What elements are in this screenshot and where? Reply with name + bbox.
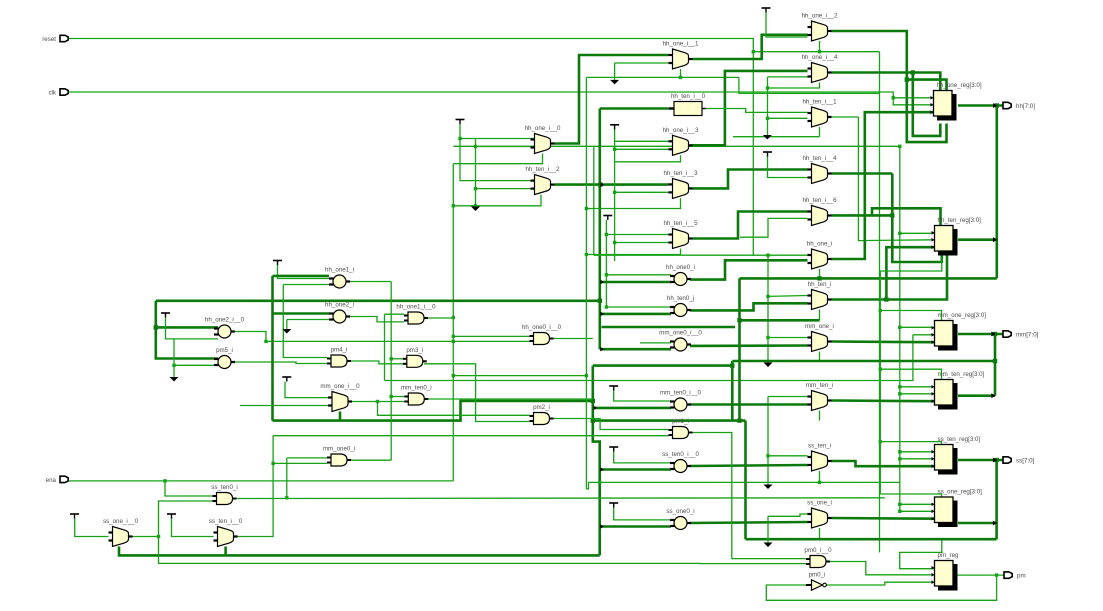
port pm [1004, 572, 1026, 580]
wire ss_ten0 out [690, 465, 808, 466]
wire mm_one_i upper [768, 337, 808, 339]
junction r767 a [766, 86, 769, 89]
wire hh_one_i__2 sel [819, 41, 821, 52]
junction r899 ss_ten p2 [898, 457, 901, 460]
constant T mm_one_i__0 [282, 377, 291, 382]
wire hh_ten_reg fb [880, 258, 942, 271]
wire ss_one_i sel [819, 528, 821, 539]
svg-text:pm2_i: pm2_i [533, 404, 550, 411]
svg-text:ss_one_reg[3:0]: ss_one_reg[3:0] [938, 489, 983, 496]
wire hh_ten6 out [832, 214, 893, 217]
wire mm_ten_reg Q [958, 394, 995, 397]
wire ss_ten0_i out [237, 497, 885, 500]
wire r899 mm_one p1 [900, 326, 935, 328]
junction pmq [995, 573, 998, 576]
wire t 277 drop [278, 265, 330, 279]
wire mm_one_i__0 out [352, 401, 404, 403]
and-gate pm4_i [327, 347, 351, 368]
svg-text:mm_ten_reg[3:0]: mm_ten_reg[3:0] [938, 371, 985, 378]
wire hh_one1 bus [693, 35, 808, 59]
wire hh_ten3 sel [586, 198, 680, 209]
wire r899 mm_ten p2 [900, 393, 935, 395]
wire mm_ten0_i in1 [391, 396, 404, 398]
svg-text:ena: ena [46, 477, 57, 484]
wire mm fb bus [732, 360, 995, 363]
wire mm_ten0 low [593, 407, 671, 410]
wire y327 stub [602, 326, 736, 329]
wire vbus 599 [598, 109, 601, 350]
wire hh_one1 in2 [283, 284, 329, 286]
wire rail 880 [879, 271, 881, 494]
pin tick [600, 182, 604, 186]
wire hh_one0_i__0 in1 [453, 335, 529, 337]
wire hh_ten0 low [600, 313, 671, 316]
wire ss fb left v [744, 421, 747, 540]
open terminal c [763, 135, 772, 140]
junction r476 b [474, 187, 477, 190]
wire t285 drop [285, 382, 328, 398]
constant T hh_one2_i__0 [161, 313, 170, 318]
junction hhq [995, 103, 999, 107]
buffer pm5_i [214, 347, 235, 369]
wire ssten top feed [880, 442, 941, 445]
svg-text:pm0_i: pm0_i [809, 572, 826, 579]
wire rail 768 B [767, 397, 769, 485]
and-gate mm_one0_i [323, 446, 355, 467]
wire left bus v [156, 301, 218, 359]
constant T ss_ten_i__0 [167, 514, 176, 519]
junction rail391 pm3 [390, 357, 393, 360]
svg-text:ss_ten_reg[3:0]: ss_ten_reg[3:0] [938, 436, 981, 443]
wire hh_ten6 jog [872, 208, 941, 225]
wire pm1 in2 [273, 435, 668, 437]
wire mm_ten_i sel [819, 411, 821, 421]
wire hh_one_reg Q [958, 104, 1003, 107]
wire hh_ten_i__2 sel [453, 195, 541, 206]
junction r586 a [585, 207, 588, 210]
buffer ss_one0_i [666, 508, 694, 530]
junction t460 [458, 137, 461, 140]
wire mmten top feed [880, 369, 941, 379]
wire mm_one_i__0 in2 [240, 405, 328, 407]
wire sel1 drop [739, 77, 880, 93]
svg-text:pm_reg: pm_reg [938, 552, 960, 559]
wire clk to hh_one_reg [893, 97, 934, 99]
mux ss_ten_i__0 [209, 518, 243, 547]
svg-text:mm_one_i__0: mm_one_i__0 [320, 383, 360, 390]
wire hh_ten3 in2 [615, 191, 669, 193]
register mm_one_reg[3:0] [932, 312, 987, 351]
buffer hh_one1_i [325, 267, 354, 289]
open terminal f [764, 363, 773, 368]
open terminal g [764, 485, 773, 490]
wire mm fb left [273, 401, 593, 421]
svg-text:ss_ten_i: ss_ten_i [808, 443, 831, 450]
wire hh_ten1 in2 [768, 117, 808, 119]
svg-text:ss_one0_i: ss_one0_i [666, 508, 694, 515]
wire pm0_i out [826, 582, 935, 585]
wire pm2 out [554, 419, 669, 430]
wire mm top feed [880, 311, 941, 321]
wire hh_one3 in2 [615, 148, 669, 150]
svg-text:pm3_i: pm3_i [406, 347, 423, 354]
wire pm3 out [424, 364, 530, 422]
wire ss_one_i upper [768, 514, 808, 516]
register hh_one_reg[3:0] [931, 82, 982, 121]
wire hh_ten5 in2 [615, 242, 669, 244]
svg-text:pm0_i__0: pm0_i__0 [804, 547, 832, 554]
svg-text:ss_one_i: ss_one_i [807, 500, 832, 507]
wire hh_ten3 out [693, 170, 808, 189]
wire hh_one1_i__0 out [424, 317, 453, 319]
junction sel1 [679, 76, 682, 79]
junction leftbus 599 [598, 299, 602, 303]
wire rail 768 C [767, 516, 769, 542]
svg-text:hh_ten_i__2: hh_ten_i__2 [525, 166, 560, 173]
wire ss_ten_reg Q [958, 459, 1003, 462]
wire hh_one1 out [346, 281, 391, 283]
wire mm_ten_i upper [768, 396, 808, 398]
junction leftbus [154, 325, 158, 329]
junction r899 ss_one p2 [898, 510, 901, 513]
wire hh reg top2 [907, 80, 947, 91]
junction sel hhten2 b [474, 204, 477, 207]
wire hhten0 out [706, 109, 808, 113]
wire pm5 in2 [174, 364, 218, 366]
wire t165 drop [166, 318, 219, 339]
wire hh_one0 out [690, 260, 808, 279]
wire ss_one_reg Q [958, 522, 997, 525]
wire hh_ten4 loop [892, 174, 942, 263]
buffer mm_one0_i__0 [659, 330, 702, 352]
wire ss_ten_i upper [768, 455, 808, 457]
wire mm_ten0 out [690, 403, 808, 406]
junction hh_one_i__2 sel [818, 50, 821, 53]
wire hh_one1_i__0 in1 [385, 313, 405, 315]
constant T hh_one_i__0 [456, 120, 465, 125]
junction hoursel 336 [452, 335, 455, 338]
q arrowhead [993, 521, 997, 526]
wire rail 283 [283, 285, 327, 358]
wire vbus 592 [593, 366, 600, 556]
junction pm5 [172, 364, 175, 367]
register pm_reg [932, 552, 960, 591]
constant T mm_ten0_i__0 [609, 386, 618, 391]
wire hh_ten2 bus [555, 183, 669, 186]
wire ss1 to ss_ten0 [159, 501, 213, 537]
open terminal e [170, 377, 179, 382]
wire hh_one2 bus [832, 31, 947, 142]
wire v912 seg [385, 335, 913, 381]
wire hh_ten_i upper [768, 295, 808, 298]
svg-text:mm_ten0_i: mm_ten0_i [401, 385, 432, 392]
wire mm fb rise [731, 361, 734, 421]
junction r768 hh_ten [766, 295, 769, 298]
and-gate ss_ten0_i [211, 484, 238, 505]
svg-text:hh_one0_i__0: hh_one0_i__0 [522, 324, 562, 331]
junction sel hhten2 [452, 204, 455, 207]
junction r899 mm_one p1 [898, 326, 901, 329]
wire hh_one_i out [832, 112, 935, 259]
constant T hh_ten_i__5 [603, 216, 612, 221]
buffer ss_ten0_i__0 [662, 451, 699, 473]
svg-text:hh_one_i__4: hh_one_i__4 [802, 54, 838, 61]
wire pm2 feed [378, 402, 530, 416]
port mm[7:0] [1003, 331, 1039, 339]
svg-text:hh_one0_i: hh_one0_i [666, 264, 695, 271]
junction r768 hh_one [766, 254, 769, 257]
wire ss v bus [995, 460, 998, 539]
wire y365 bus [593, 364, 733, 367]
svg-text:hh_ten_reg[3:0]: hh_ten_reg[3:0] [938, 217, 982, 224]
junction r880 b [879, 368, 882, 371]
svg-text:mm_one0_i: mm_one0_i [323, 446, 355, 453]
wire hh_one2 in1 [273, 312, 330, 315]
mux hh_one_i__0 [525, 125, 561, 154]
wire leftbus v272 [271, 276, 274, 421]
svg-text:mm_one0_i__0: mm_one0_i__0 [659, 330, 702, 337]
wire ss sel row [586, 482, 899, 489]
junction ssrow 599 [598, 481, 601, 484]
wire hh_ten_i out [832, 254, 948, 300]
wire hh_one_i__0 in2 [476, 146, 535, 148]
wire hh_ten4 out [832, 172, 893, 175]
and-gate pm1_i [669, 418, 693, 439]
svg-text:hh[7:0]: hh[7:0] [1016, 103, 1035, 110]
mux ss_ten_i [808, 443, 832, 472]
junction mm_one0 in2 [271, 462, 274, 465]
svg-text:ss_ten0_i__0: ss_ten0_i__0 [662, 451, 699, 458]
wire r899 ss_one p1 [900, 503, 935, 505]
wire rail 899 [899, 146, 901, 511]
junction r607 a [605, 233, 608, 236]
buffer mm_ten0_i__0 [660, 390, 701, 412]
wire hh_ten1 sel [819, 127, 821, 137]
wire hoursel rail [452, 164, 454, 481]
svg-text:mm_ten0_i__0: mm_ten0_i__0 [660, 390, 701, 397]
wire hh_ten_reg Q [958, 238, 997, 241]
junction mmfb 365 [730, 363, 734, 367]
junction clk hh_one [892, 96, 895, 99]
junction r614 a [613, 191, 616, 194]
junction reset [752, 50, 755, 53]
wire reset net [67, 39, 753, 52]
svg-text:reset: reset [42, 36, 56, 43]
open terminal d [282, 329, 291, 334]
junction r899 ss_one p1 [898, 503, 901, 506]
buffer hh_one2_i__0 [205, 317, 245, 339]
wire ena net [67, 480, 453, 482]
port ena [46, 476, 69, 484]
junction hh4 branch [911, 70, 915, 74]
svg-text:hh_ten_i__4: hh_ten_i__4 [802, 155, 837, 162]
wire hh_ten0 out [690, 303, 808, 310]
junction hhten3 in1 [598, 182, 602, 186]
wire t460 to hh_ten2 [460, 139, 535, 181]
wire ss bottom bus [119, 547, 600, 556]
q arrowhead [993, 237, 997, 242]
wire in2 arrow drop [614, 63, 616, 80]
wire hh_ten5 sel [586, 249, 680, 255]
wire r899 hh_ten p1 [900, 232, 935, 234]
wire hh_ten6 in2 [740, 218, 808, 237]
svg-text:hh_ten_i__6: hh_ten_i__6 [802, 197, 837, 204]
open terminal a [610, 80, 619, 85]
wire hh_one2 out [346, 317, 404, 322]
buffer hh_ten0_j [667, 295, 694, 317]
pin tick [600, 347, 604, 351]
wire mm_one p2 [913, 334, 935, 336]
wire hh_one_i__1 seldrop [680, 69, 682, 77]
junction r614 b [613, 241, 616, 244]
wire hh_one4 sel [768, 83, 820, 89]
wire hh_one3 in1 [615, 140, 669, 142]
wire tc766 [766, 13, 808, 38]
junction v740 end [737, 418, 741, 422]
wire tc767 drop [768, 157, 808, 178]
wire mm v bus [994, 334, 997, 396]
junction r614 in2 [613, 148, 616, 151]
pin tick [600, 312, 604, 316]
junction r607 c [605, 305, 608, 308]
wire pm feedback [766, 575, 996, 600]
svg-text:clk: clk [48, 90, 56, 97]
constant T hh_one_i__2 [762, 8, 771, 13]
wire hh_ten_i__2 in2 [476, 188, 535, 190]
wire mm fb bus2 [593, 419, 746, 422]
open terminal b [471, 207, 480, 212]
wire clk net [67, 92, 935, 105]
mux hh_one_i__4 [802, 54, 838, 83]
junction mm_one_i__0 out [376, 400, 379, 403]
svg-text:ss_one_i__0: ss_one_i__0 [103, 518, 139, 525]
wire rail 879 [879, 52, 881, 553]
mux ss_one_i [807, 500, 832, 529]
junction ss_ten0 out [285, 496, 288, 499]
junction r899 hh_ten p1 [898, 232, 901, 235]
and-gate pm2_i [530, 404, 554, 425]
mux hh_one_i__2 [802, 13, 838, 42]
junction hhten D [884, 297, 888, 301]
wire hh_one4 loop [913, 73, 941, 136]
svg-text:hh_one_i__3: hh_one_i__3 [663, 127, 699, 134]
wire mm_one_i sel [819, 352, 821, 362]
wire ss_ten_i__0 out [238, 436, 274, 537]
pin tick [600, 280, 604, 284]
junction ssq [994, 458, 998, 462]
wire t74 drop [75, 519, 109, 537]
wire hh_one1 in1 [273, 275, 330, 278]
and-gate hh_one0_i__0 [522, 324, 562, 345]
wire ss_one0 out [690, 522, 808, 523]
junction r607 b [605, 273, 608, 276]
wire hh_one upper row [594, 254, 808, 256]
junction hoursel [452, 316, 455, 319]
buffer hh_one2_i [325, 302, 354, 324]
wire pm0_i__0 out [830, 562, 935, 575]
wire hh bus down [995, 106, 998, 279]
wire hh_one3 sel [615, 155, 681, 162]
wire hh_ten1 sel row [733, 136, 820, 138]
mux hh_one_i [807, 241, 832, 270]
junction r768 mm_one [766, 336, 769, 339]
mux hh_ten_i__4 [802, 155, 837, 184]
wire hh_ten5 out [693, 212, 808, 239]
wire rail 174 [173, 339, 175, 377]
wire rail 858 [858, 117, 934, 241]
svg-text:hh_one_i__2: hh_one_i__2 [802, 13, 838, 20]
register ss_one_reg[3:0] [932, 489, 983, 528]
svg-text:hh_ten_i: hh_ten_i [808, 281, 832, 288]
svg-text:mm_one_reg[3:0]: mm_one_reg[3:0] [938, 312, 987, 319]
mux hh_ten_i [808, 281, 832, 310]
svg-text:hh_one2_i: hh_one2_i [325, 302, 354, 309]
wire rail 476 [475, 139, 477, 206]
wire t613c drop [614, 452, 671, 463]
svg-text:hh_one_i__1: hh_one_i__1 [663, 41, 699, 48]
svg-text:pm1_i: pm1_i [672, 418, 689, 425]
wire mm_one0 low [600, 348, 671, 351]
wire reset rail [752, 52, 754, 256]
q arrowhead [991, 393, 995, 398]
and-gate hh_one1_i__0 [396, 304, 436, 325]
junction ena [163, 479, 166, 482]
wire hh_one4 in2 [768, 76, 808, 78]
junction r880 c [879, 440, 882, 443]
wire mm_one0_i in2 [273, 462, 327, 464]
junction r586 b [585, 253, 588, 256]
svg-text:hh_one1_i: hh_one1_i [325, 267, 354, 274]
svg-text:hh_one2_i__0: hh_one2_i__0 [205, 317, 245, 324]
svg-text:pm: pm [1017, 573, 1026, 580]
wire ss_ten0 low [600, 468, 671, 471]
wire mm_one_i__0 sel [339, 412, 342, 421]
constant T ss_one_i__0 [70, 514, 79, 519]
wire mm_one_i out [832, 340, 935, 343]
mux hh_ten_i__2 [525, 166, 560, 195]
wire hh_ten0 up [606, 306, 671, 308]
pin tick [600, 524, 604, 528]
q arrowhead [993, 458, 997, 463]
junction y341 [264, 340, 267, 343]
wire rail 767 [767, 77, 769, 137]
wire hh_one_i__1 in2 [615, 62, 669, 64]
junction r768B b [766, 454, 769, 457]
svg-text:hh_one_i__0: hh_one_i__0 [525, 125, 561, 132]
wire hh_ten5 in1 [606, 234, 668, 236]
wire ss_ten_i sel [819, 471, 821, 482]
and-gate mm_ten0_i [401, 385, 432, 406]
wire hh_one2_i__0 in1 [156, 326, 218, 329]
junction r899 mm_ten p1 [898, 385, 901, 388]
wire pm pin1 zigzag [900, 539, 942, 569]
wire hh_one_i sel [819, 269, 821, 278]
wire rail 586 [585, 77, 587, 489]
register hh_ten_reg[3:0] [932, 217, 982, 256]
mux mm_one_i__0 [320, 383, 360, 412]
junction r476 a [474, 145, 477, 148]
wire t613b drop [614, 391, 671, 402]
pin tick [600, 467, 604, 471]
constant T hh_ten_i__4 [763, 152, 772, 157]
and-gate pm0_i__0 [804, 547, 832, 568]
junction y400 end [591, 399, 595, 403]
wire rail 593 [593, 146, 595, 255]
constant T ss_one0_i [609, 503, 618, 508]
mux hh_ten_i__6 [802, 197, 837, 226]
wire hhten sel row [740, 319, 820, 322]
mux mm_ten_i [806, 382, 833, 411]
